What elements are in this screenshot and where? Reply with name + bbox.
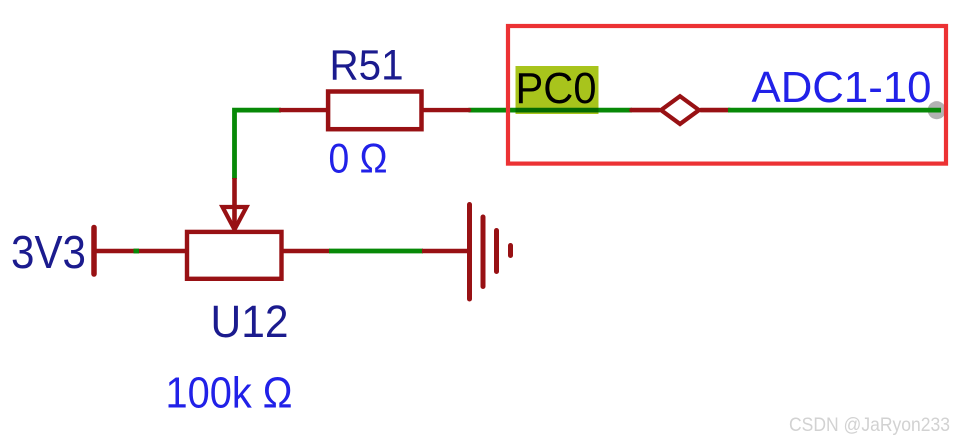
- net-tie diamond: [661, 96, 699, 124]
- wire: green middle segment: [329, 249, 423, 254]
- svg-text:ADC1-10: ADC1-10: [752, 63, 932, 112]
- wire: red from 3V3 to U12: [94, 249, 187, 254]
- svg-text:U12: U12: [211, 296, 289, 347]
- potentiometer U12 body: [187, 232, 282, 279]
- highlight: PC0 net name selection: [516, 66, 599, 114]
- 3V3 pin bar: [91, 228, 97, 275]
- wire: red from U12 right: [283, 249, 330, 254]
- svg-text:R51: R51: [330, 43, 404, 90]
- arrowhead on potentiometer wiper: [223, 207, 247, 230]
- svg-text:100k Ω: 100k Ω: [166, 370, 293, 418]
- ground bar 4: [508, 246, 513, 256]
- svg-text:3V3: 3V3: [11, 226, 86, 278]
- red selection box: [508, 26, 946, 164]
- wire: green top-left corner segment: [235, 110, 282, 179]
- node: gray dot at wire end: [928, 101, 946, 119]
- wire: green segment to ADC1-10: [728, 108, 941, 113]
- resistor R51: [328, 92, 421, 130]
- wire: dark red stub left of R51: [279, 108, 327, 112]
- svg-text:CSDN @JaRyon233: CSDN @JaRyon233: [789, 414, 950, 436]
- wire: dark red stub right of diamond: [701, 108, 730, 113]
- svg-text:0 Ω: 0 Ω: [329, 135, 388, 182]
- wire: red vertical shaft to potentiometer arrow: [232, 178, 237, 226]
- wire: dark red stub right of R51: [423, 108, 469, 112]
- ground bar 1: [467, 205, 472, 300]
- wire: dark red stub left of diamond: [632, 108, 660, 113]
- ground bar 3: [494, 231, 499, 272]
- wire: green segment to PC0: [469, 108, 633, 113]
- svg-text:PC0: PC0: [516, 64, 597, 113]
- ground bar 2: [481, 217, 486, 287]
- wire: small green junction segment: [134, 249, 140, 254]
- wire: red to ground: [422, 249, 468, 254]
